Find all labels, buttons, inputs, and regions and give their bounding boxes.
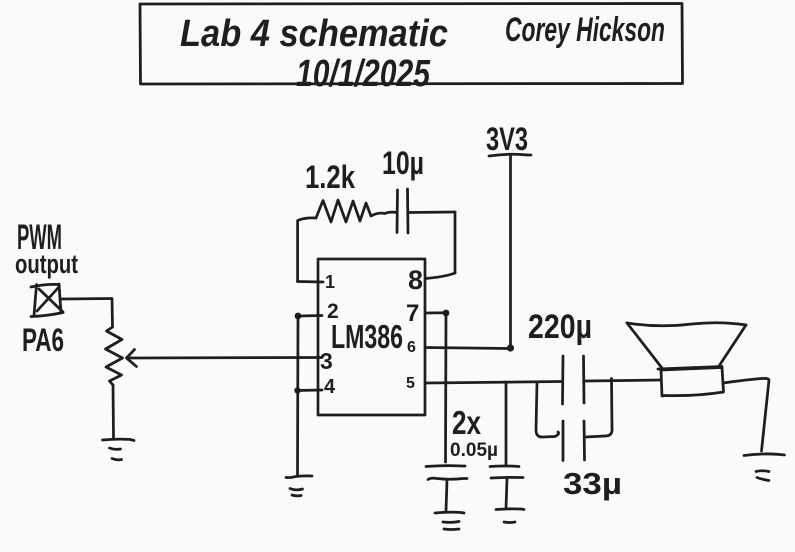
wire cap #1 to ground (446, 480, 447, 511)
wire pin 2 stub (298, 314, 322, 317)
title box (140, 4, 683, 85)
svg-text:2: 2 (327, 300, 339, 323)
power 3V3 bar (489, 154, 531, 156)
capacitor 10u plates (396, 190, 399, 233)
speaker cone (627, 323, 746, 369)
svg-text:7: 7 (406, 300, 419, 327)
pin symbol PWM pad (box with X) (31, 284, 63, 317)
svg-text:1: 1 (325, 272, 335, 292)
svg-text:0.05µ: 0.05µ (450, 440, 498, 461)
speaker body (661, 368, 724, 397)
svg-text:Corey Hickson: Corey Hickson (505, 11, 665, 49)
wire 33u parallel bracket left (536, 383, 559, 437)
node junction dot pin 6 / 3V3 (507, 344, 514, 351)
ground (IC pins 2 and 4) (286, 476, 312, 496)
ground (speaker) (744, 454, 785, 481)
IC U1 LM386 body (318, 259, 425, 415)
wire 220u cap to speaker (584, 380, 661, 381)
capacitor 0.05u #2 plates (490, 465, 519, 468)
potentiometer body (vertical zigzag) (106, 327, 123, 385)
wire 3V3 down to pin 6 node (509, 155, 512, 348)
svg-text:PA6: PA6 (22, 322, 64, 358)
capacitor 0.05u #1 plates (426, 464, 465, 468)
node junction dot pin 2 (295, 313, 302, 320)
svg-text:10/1/2025: 10/1/2025 (296, 53, 431, 95)
wire pin 5 to 220u cap (425, 382, 561, 384)
svg-text:LM386: LM386 (331, 318, 403, 355)
svg-text:5: 5 (406, 375, 415, 392)
wire right riser down to pin 8 (454, 212, 457, 273)
svg-text:8: 8 (408, 265, 423, 295)
wire 33u parallel bracket right (586, 379, 612, 438)
wire pin2/pin4 bus down to ground (296, 316, 299, 475)
wire pin 8 stub (426, 273, 456, 279)
svg-text:6: 6 (407, 339, 416, 356)
svg-text:3: 3 (320, 348, 333, 374)
svg-text:10µ: 10µ (382, 145, 424, 181)
wire pin 7 down to bypass cap (444, 313, 447, 462)
svg-text:33µ: 33µ (563, 466, 622, 501)
svg-text:2x: 2x (452, 404, 482, 441)
ground (cap #1) (435, 512, 464, 529)
node junction dot pin 7 (443, 310, 450, 317)
wire PWM pad to potentiometer top (61, 299, 113, 328)
svg-text:output: output (15, 249, 78, 279)
capacitor 220u plates (561, 356, 564, 404)
resistor 1.2k (zigzag) (316, 200, 397, 222)
svg-text:Lab 4 schematic: Lab 4 schematic (180, 13, 448, 55)
wire pot bottom to ground (112, 385, 115, 438)
wire left riser of feedback network (pin 1 up) (298, 218, 316, 282)
svg-text:3V3: 3V3 (486, 121, 528, 157)
ground (pot) (103, 439, 135, 460)
capacitor 33u plates (562, 421, 565, 461)
node junction dot pin 4 (294, 387, 300, 393)
svg-text:4: 4 (324, 376, 336, 398)
wire speaker to ground (723, 378, 769, 451)
wire pin 4 stub (298, 389, 323, 392)
svg-text:220µ: 220µ (528, 308, 592, 346)
wire pin 1 stub (298, 280, 323, 283)
wire cap right plate to right riser (408, 211, 455, 214)
wire pot wiper to IC pin 3 (with arrowhead) (127, 356, 322, 359)
wire cap #2 to ground (506, 479, 507, 508)
wire pin 7 stub (425, 311, 446, 314)
ground (cap #2) (496, 509, 524, 523)
svg-text:1.2k: 1.2k (305, 159, 355, 195)
wire pin 6 to 3V3 node (425, 348, 511, 349)
wire drop to cap #2 (505, 382, 508, 464)
